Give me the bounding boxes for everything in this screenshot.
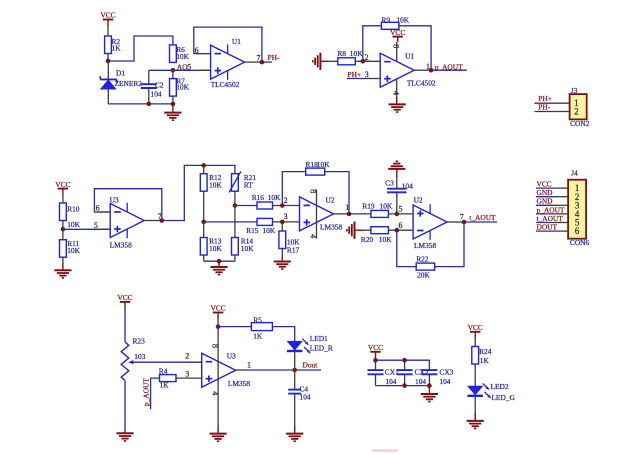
pin 4 label (U2a, rotated)	[309, 234, 318, 238]
svg-text:10K: 10K	[241, 244, 254, 253]
net label PH+, pin 3	[348, 70, 369, 79]
potentiometer R23 103	[121, 336, 145, 380]
svg-text:R8: R8	[338, 49, 347, 58]
wire U2a feedback right	[325, 172, 349, 214]
op-amp U3 LM358 (a)	[110, 195, 145, 249]
junction Dout	[292, 368, 297, 373]
junction R10/R11	[61, 227, 66, 232]
svg-text:10K: 10K	[317, 160, 330, 169]
op-amp U2 LM358 (a)	[300, 195, 343, 231]
svg-text:10K: 10K	[396, 15, 409, 24]
svg-text:PH+: PH+	[348, 70, 362, 79]
wire R20 to U2b pin6	[389, 229, 414, 231]
svg-text:10K: 10K	[379, 235, 392, 244]
svg-text:p_AOUT: p_AOUT	[435, 62, 463, 71]
J4 pin 5 wire	[536, 222, 568, 224]
svg-text:U3: U3	[227, 351, 236, 360]
resistor R4 1K	[159, 366, 176, 389]
svg-text:U1: U1	[232, 37, 241, 46]
wire U2a output	[334, 213, 371, 215]
junction VCC/R5	[216, 324, 221, 329]
wire U1b feedback right	[399, 26, 431, 70]
svg-text:10K: 10K	[209, 181, 222, 190]
resistor R18 10K	[306, 160, 331, 175]
svg-text:R4: R4	[159, 366, 168, 375]
wire VCC to R10	[62, 196, 64, 203]
svg-text:104: 104	[415, 377, 426, 386]
svg-text:1K: 1K	[480, 356, 490, 365]
svg-text:3: 3	[284, 212, 288, 221]
svg-text:R15: R15	[246, 226, 259, 235]
wire R2 to node D1	[107, 54, 109, 62]
ground (top-left)	[164, 104, 181, 120]
power VCC (R24)	[468, 323, 483, 339]
svg-text:10K: 10K	[67, 220, 80, 229]
capacitor C2 104	[141, 70, 164, 104]
resistor R11 10K	[60, 229, 81, 262]
wire VCC to U1b pin8 and through to pin4	[396, 42, 398, 96]
svg-text:10K: 10K	[268, 193, 281, 202]
svg-text:2: 2	[574, 106, 578, 116]
wire R16 to U2a pin2	[273, 205, 300, 207]
svg-text:6: 6	[96, 204, 100, 213]
junction U2b output	[462, 220, 467, 225]
wire U2b output	[447, 221, 497, 223]
power VCC (U3b)	[210, 304, 225, 319]
svg-text:VCC: VCC	[55, 180, 70, 189]
svg-text:LED1: LED1	[310, 334, 328, 343]
pin 4 label (U3b, rotated)	[211, 391, 220, 395]
net label p_AOUT	[435, 62, 463, 71]
junction node AO (R6/R7)	[171, 68, 176, 73]
op-amp U1 TLC4502 (a)	[211, 37, 245, 89]
wire R10 to node	[62, 221, 64, 230]
net label PH-	[268, 53, 280, 62]
svg-text:TLC4502: TLC4502	[407, 79, 436, 88]
resistor R7 10K	[170, 70, 190, 104]
wire PH+ to U1b pin3	[347, 78, 380, 80]
resistor R20 10K	[361, 227, 392, 245]
ground (R17)	[274, 256, 291, 269]
wire R4 to U3b pin3	[176, 377, 202, 379]
svg-text:7: 7	[257, 53, 261, 62]
svg-text:LED_G: LED_G	[491, 393, 515, 402]
wire D1 anode to C2/R7 ground rail	[108, 103, 173, 105]
ground (rotated, R8 input)	[313, 53, 330, 70]
thermistor R21 RT	[229, 172, 256, 206]
svg-text:3: 3	[185, 369, 189, 378]
J4 pin 1 wire	[536, 187, 568, 189]
U2a power pin line	[316, 189, 318, 238]
wire U1b output	[414, 69, 467, 71]
pin 8 label (U3b, rotated)	[211, 344, 220, 348]
capacitor CX2 104	[397, 360, 429, 386]
wire R24 to LED2	[474, 364, 476, 386]
svg-text:C2: C2	[155, 80, 164, 89]
J3 pin 1 wire	[534, 102, 569, 104]
svg-text:TLC4502: TLC4502	[211, 80, 240, 89]
svg-text:8: 8	[309, 189, 318, 193]
wire CX top rail	[376, 359, 430, 370]
resistor R2 1K	[105, 36, 122, 54]
node label AO, pin 5	[177, 63, 191, 72]
svg-text:10K: 10K	[350, 49, 363, 58]
svg-text:VCC: VCC	[368, 343, 383, 352]
ground (LED2)	[467, 413, 484, 429]
pin 6 label	[195, 46, 199, 55]
wire U3b output Dout	[236, 369, 321, 371]
wire node to R6 top	[108, 36, 173, 61]
junction R8/feedback	[361, 59, 366, 64]
junction R12/R13 node	[201, 220, 206, 225]
wire LED2 to ground	[474, 396, 476, 421]
wire AO node to C2 top	[149, 69, 173, 71]
svg-text:PH-: PH-	[538, 102, 550, 111]
connector J3 CON2	[570, 86, 590, 128]
pin 7 label (U2b)	[460, 212, 464, 221]
svg-text:1K: 1K	[253, 332, 263, 341]
resistor R9 10K	[381, 15, 409, 29]
pin 3 label (U2a)	[284, 212, 288, 221]
junction R12 top	[201, 163, 206, 168]
wire node to R16	[235, 205, 257, 207]
wire R8 to U1b pin2	[355, 60, 380, 62]
wire VCC down through U3b to ground	[217, 319, 219, 426]
svg-text:U3: U3	[110, 195, 119, 204]
svg-text:8: 8	[391, 44, 400, 48]
LED LED2 LED_G	[468, 382, 516, 402]
svg-text:103: 103	[134, 352, 145, 361]
pin 8 label (U2a, rotated)	[309, 189, 318, 193]
power VCC (R23)	[117, 293, 132, 309]
junction CX1 top	[373, 358, 378, 363]
svg-text:1K: 1K	[160, 380, 170, 389]
svg-text:10K: 10K	[209, 244, 222, 253]
svg-text:DOUT: DOUT	[537, 223, 558, 232]
resistor R16 10K	[252, 193, 281, 209]
svg-text:VCC: VCC	[390, 28, 405, 37]
svg-text:4: 4	[211, 391, 220, 395]
svg-text:LM358: LM358	[110, 240, 132, 249]
svg-text:4: 4	[391, 91, 400, 95]
pin 1 label (U2a)	[346, 203, 350, 212]
op-amp U3 LM358 (b)	[202, 351, 251, 388]
net label Dout	[303, 361, 319, 370]
wire node to U3a pin5	[63, 228, 110, 230]
junction U3a output	[160, 218, 165, 223]
svg-text:R17: R17	[287, 245, 300, 254]
svg-text:5: 5	[94, 221, 98, 230]
pin 7 label	[257, 53, 261, 62]
resistor R10 10K	[60, 203, 81, 229]
junction ground rail	[217, 259, 222, 264]
connector J4 CON6	[568, 169, 589, 247]
pin 5 label (U2b)	[399, 204, 403, 213]
J4 pin 4 wire	[536, 213, 568, 215]
ground (U3b pin4)	[210, 425, 227, 441]
svg-text:C3: C3	[385, 179, 394, 188]
junction U2a pin2	[280, 203, 285, 208]
resistor R22 20K	[416, 255, 435, 280]
svg-text:6: 6	[575, 226, 580, 236]
pin 6 label (U2b)	[399, 221, 403, 230]
wire VCC to R2	[107, 27, 109, 37]
junction C3/pin5	[395, 212, 400, 217]
resistor R24 1K	[472, 347, 492, 366]
junction U1a output	[260, 60, 265, 65]
svg-text:LED_R: LED_R	[310, 344, 333, 353]
wire U3a feedback	[94, 189, 161, 221]
ground (R13/R14)	[210, 261, 227, 274]
resistor R13 10K	[200, 222, 222, 261]
ground (inverted, C3)	[388, 161, 405, 177]
pin 3 label (U3b)	[185, 369, 189, 378]
ground (rotated, R20 input)	[347, 222, 364, 239]
pin 4 label (rotated)	[391, 91, 400, 95]
svg-text:LM358: LM358	[228, 379, 250, 388]
svg-text:LED2: LED2	[491, 382, 509, 391]
svg-text:1K: 1K	[112, 44, 122, 53]
op-amp U1 TLC4502 (b)	[380, 51, 436, 87]
power VCC (CX caps)	[368, 343, 383, 359]
svg-text:CX3: CX3	[439, 367, 453, 376]
resistor R6 10K	[170, 45, 190, 63]
power VCC (R10)	[55, 180, 70, 196]
resistor R14 10K	[232, 206, 255, 262]
wire R19 to U2b pin5	[389, 213, 414, 215]
svg-text:1: 1	[247, 360, 251, 369]
J4 pin 3 wire	[536, 204, 568, 206]
junction R2/D1	[106, 59, 111, 64]
junction U2a output	[347, 212, 352, 217]
J3 pin 2 wire	[534, 111, 569, 113]
wire VCC to R24	[474, 339, 476, 347]
junction C2 bottom	[147, 102, 152, 107]
pin 6 label (U3a)	[96, 204, 100, 213]
net label DOUT (J4)	[537, 223, 558, 232]
wire R23 bottom to ground	[124, 381, 126, 430]
net label GND (J4)	[537, 188, 554, 197]
wire U3a output	[144, 165, 235, 220]
svg-text:VCC: VCC	[210, 304, 225, 313]
pin 8 label (rotated)	[391, 44, 400, 48]
svg-text:104: 104	[385, 377, 396, 386]
pin 7 label (U3a)	[158, 212, 162, 221]
net label t_AOUT (J4)	[537, 214, 564, 223]
svg-text:10K: 10K	[67, 246, 80, 255]
power VCC (U1b)	[390, 28, 405, 42]
wire LED1 to Dout node	[294, 351, 296, 370]
svg-text:t_AOUT: t_AOUT	[469, 213, 496, 222]
svg-text:10K: 10K	[176, 52, 189, 61]
faint artifact line	[372, 449, 398, 451]
capacitor C3 104	[385, 177, 413, 214]
junction R7 bottom	[171, 102, 176, 107]
svg-text:5: 5	[399, 204, 403, 213]
pin 2 label	[365, 53, 369, 62]
wire ground to R8	[329, 60, 337, 62]
pin 2 label (U3b)	[185, 352, 189, 361]
svg-text:RT: RT	[244, 181, 253, 190]
net label VCC (J4)	[537, 180, 552, 189]
net label PH- (J3)	[538, 102, 550, 111]
J4 pin 6 wire	[536, 230, 568, 232]
svg-text:6: 6	[399, 221, 403, 230]
wire node to R15	[204, 221, 257, 223]
svg-text:U1: U1	[405, 51, 414, 60]
net label p_AOUT (vertical)	[142, 378, 160, 410]
svg-text:CON2: CON2	[570, 119, 590, 128]
wire VCC to R23	[124, 309, 126, 342]
junction CX2 bottom	[402, 383, 407, 388]
svg-text:R5: R5	[253, 315, 262, 324]
capacitor CX3 104	[421, 367, 453, 386]
pin 1 label	[426, 62, 430, 71]
svg-text:1: 1	[346, 203, 350, 212]
resistor R12 10K	[200, 165, 222, 222]
junction R21/R14/R16	[233, 203, 238, 208]
svg-text:10K: 10K	[176, 82, 189, 91]
svg-text:7: 7	[460, 212, 464, 221]
net label GND (J4)	[537, 197, 554, 206]
capacitor C4 104	[288, 370, 311, 425]
svg-text:R16: R16	[252, 193, 265, 202]
wire VCC to R5	[218, 326, 251, 328]
wire AO node to U1 pin5	[173, 69, 211, 71]
svg-text:VCC: VCC	[468, 323, 483, 332]
wire ground to R20	[364, 229, 371, 231]
svg-text:U2: U2	[414, 196, 423, 205]
svg-text:104: 104	[151, 89, 162, 98]
resistor R15 10K	[246, 218, 276, 235]
svg-text:J4: J4	[571, 169, 578, 178]
ground (R11)	[54, 263, 71, 278]
svg-text:LM358: LM358	[320, 222, 342, 231]
svg-text:U2: U2	[326, 195, 335, 204]
svg-text:4: 4	[309, 234, 318, 238]
svg-text:D1: D1	[116, 69, 125, 78]
junction U1b output	[429, 68, 434, 73]
wire U2a feedback left	[282, 172, 305, 206]
svg-text:R9: R9	[382, 15, 391, 24]
wire R5 to LED1	[273, 327, 295, 342]
svg-text:3: 3	[365, 70, 369, 79]
LED LED1 LED_R	[287, 334, 333, 353]
svg-text:10K: 10K	[380, 202, 393, 211]
pin 5 label (U3a)	[94, 221, 98, 230]
resistor R8 10K	[338, 49, 364, 65]
svg-text:R10: R10	[67, 205, 80, 214]
wire R22 feedback	[397, 222, 464, 267]
svg-text:7: 7	[158, 212, 162, 221]
net label PH+ (J3)	[538, 94, 552, 103]
svg-text:20K: 20K	[417, 271, 430, 280]
op-amp U2 LM358 (b)	[413, 196, 447, 250]
J4 pin 2 wire	[536, 196, 568, 198]
diode D1 ZENER2	[100, 61, 142, 104]
ground (R23)	[116, 430, 133, 441]
pin 1 label (U3b)	[247, 360, 251, 369]
svg-text:2: 2	[284, 196, 288, 205]
wire U1a output	[245, 61, 272, 63]
svg-text:10K: 10K	[262, 226, 275, 235]
svg-text:2: 2	[365, 53, 369, 62]
wire CX bottom rail	[376, 385, 430, 387]
wire R23 wiper to U3b pin2	[137, 361, 202, 363]
svg-text:Dout: Dout	[303, 361, 319, 370]
svg-text:R24: R24	[479, 347, 492, 356]
svg-text:LM358: LM358	[414, 241, 436, 250]
svg-text:VCC: VCC	[117, 293, 132, 302]
svg-text:104: 104	[402, 182, 413, 191]
svg-text:R23: R23	[133, 336, 146, 345]
resistor R17 10K	[279, 222, 300, 256]
net label p_AOUT (J4)	[537, 205, 565, 214]
junction U2a pin3	[280, 220, 285, 225]
net label t_AOUT	[469, 213, 496, 222]
svg-text:1: 1	[426, 62, 430, 71]
wire R13/R14 ground rail	[204, 260, 235, 262]
svg-text:R22: R22	[416, 255, 429, 264]
junction R22/pin6	[395, 228, 400, 233]
wire U1a feedback (pin6 to output)	[194, 27, 262, 62]
wire R15 to U2a pin3	[273, 221, 300, 223]
junction CX3/ground	[427, 383, 432, 388]
svg-text:104: 104	[300, 392, 311, 401]
ground (CX caps)	[421, 386, 438, 402]
wire U1b feedback left	[363, 26, 382, 62]
svg-text:R19: R19	[362, 202, 375, 211]
ground (C4)	[286, 425, 303, 441]
svg-text:J3: J3	[571, 86, 578, 95]
svg-text:CON6: CON6	[570, 238, 590, 247]
capacitor CX1 104	[368, 360, 400, 386]
svg-text:2: 2	[185, 352, 189, 361]
svg-text:R20: R20	[361, 235, 374, 244]
power VCC (top-left)	[100, 11, 115, 27]
svg-text:VCC: VCC	[100, 11, 115, 20]
svg-text:PH-: PH-	[268, 53, 280, 62]
resistor R19 10K	[362, 202, 393, 218]
ground (U1b pin4)	[389, 96, 406, 112]
svg-text:p_AOUT: p_AOUT	[142, 378, 151, 406]
svg-text:ZENER2: ZENER2	[115, 79, 143, 88]
junction CX2 top	[402, 358, 407, 363]
resistor R5 1K	[251, 315, 272, 340]
pin 2 label (U2a)	[284, 196, 288, 205]
svg-text:104: 104	[439, 377, 450, 386]
svg-text:8: 8	[211, 344, 220, 348]
